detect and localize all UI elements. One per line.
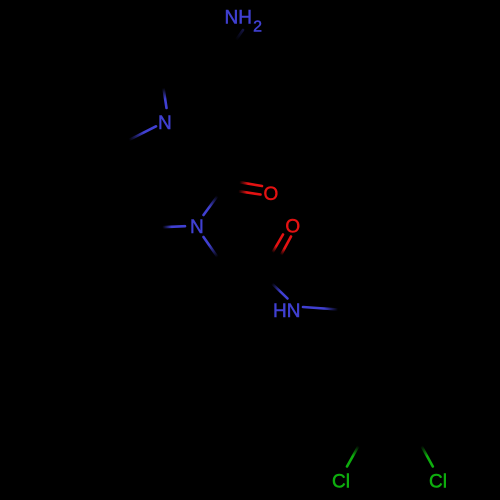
svg-text:N: N xyxy=(158,113,172,134)
svg-text:Cl: Cl xyxy=(332,471,350,492)
svg-text:O: O xyxy=(285,217,300,238)
svg-text:Cl: Cl xyxy=(429,471,447,492)
svg-text:N: N xyxy=(190,217,204,238)
svg-text:HN: HN xyxy=(273,301,300,322)
svg-text:O: O xyxy=(264,184,279,205)
